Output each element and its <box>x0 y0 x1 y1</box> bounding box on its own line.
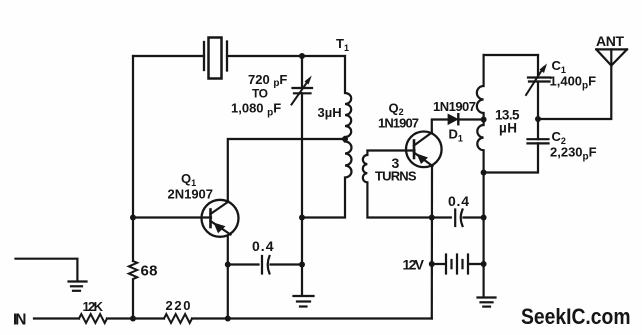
svg-text:68: 68 <box>141 263 158 280</box>
svg-text:TURNS: TURNS <box>375 169 417 184</box>
svg-text:12K: 12K <box>83 299 104 314</box>
node dot emitter / 0.4 wire (right) <box>429 215 435 221</box>
svg-text:1N1907: 1N1907 <box>378 116 419 131</box>
ground right symbol <box>478 298 496 307</box>
svg-text:0.4: 0.4 <box>252 238 274 254</box>
node dot tank coil tap / diode <box>481 117 487 123</box>
wire battery to tank bus <box>469 263 484 265</box>
svg-text:220: 220 <box>166 298 191 313</box>
node dot emitter / battery wire <box>429 261 435 267</box>
transistor Q1 <box>202 200 239 237</box>
tank top wire <box>484 54 538 56</box>
svg-text:Q1: Q1 <box>181 171 196 188</box>
wire diode to tank tap <box>458 118 483 120</box>
svg-text:SeekIC.com: SeekIC.com <box>521 304 631 329</box>
node dot at top of variable capacitor branch <box>299 53 305 59</box>
node dot battery / tank bus <box>481 261 487 267</box>
node dot var-cap branch / 0.4 cap wire <box>299 262 305 268</box>
svg-text:ANT: ANT <box>596 33 624 49</box>
value label 720 pF TO 1,080 pF <box>231 72 287 119</box>
svg-text:1,400pF: 1,400pF <box>550 74 597 92</box>
svg-text:0.4: 0.4 <box>448 193 469 209</box>
wire variable capacitor branch lower <box>301 93 303 295</box>
wire emitter node to capacitor 0.4 <box>228 263 259 265</box>
node dot emitter / 0.4 wire <box>225 262 231 268</box>
wire left vertical lower segment <box>132 280 134 319</box>
inductor 13.5uH tank coil with tap <box>477 55 484 264</box>
wire variable capacitor branch upper <box>301 56 303 88</box>
ground left symbol <box>69 282 87 291</box>
wire emitter node to capacitor 0.4 right <box>432 216 451 218</box>
node dot C1/C2/antenna junction <box>535 116 541 122</box>
transformer T1 primary winding <box>302 56 352 218</box>
wire tank bus down to ground <box>483 264 485 297</box>
svg-text:2,230pF: 2,230pF <box>550 145 597 163</box>
wire Q1 emitter down <box>227 237 229 319</box>
antenna symbol <box>596 49 627 65</box>
tank right vertical lower + bottom wire <box>484 143 538 172</box>
diode D1 <box>449 114 459 124</box>
bottom wire left segment <box>34 317 79 319</box>
variable capacitor C1 <box>526 64 551 96</box>
bottom wire middle segment <box>107 317 164 319</box>
node dot left bus / bottom wire <box>130 316 136 322</box>
wire capacitor 0.4 right to tank bus <box>464 216 484 218</box>
transistor Q2 <box>406 132 442 168</box>
bottom wire right segment <box>192 317 432 319</box>
capacitor 0.4 (right) <box>455 210 462 227</box>
node dot T1 primary tap <box>342 136 348 142</box>
svg-text:D1: D1 <box>449 127 463 144</box>
battery 12V <box>446 255 468 274</box>
wire Q1 collector to T1 tap <box>228 139 345 200</box>
node dot var-cap branch / T1 bottom <box>299 215 305 221</box>
svg-text:TO: TO <box>252 87 268 101</box>
wire capacitor 0.4 to center branch <box>271 263 303 265</box>
transformer T1 secondary (3 turns) <box>363 151 432 218</box>
node dot tank bus / 0.4 wire <box>481 215 487 221</box>
wire Q2 emitter down <box>431 167 433 319</box>
wire emitter node to battery <box>432 263 445 265</box>
resistor 12K <box>79 314 107 323</box>
svg-text:IN: IN <box>13 312 27 329</box>
capacitor 0.4 (left) <box>262 256 270 274</box>
resistor 220 <box>164 314 192 323</box>
svg-text:T1: T1 <box>336 36 349 53</box>
wire Q1 base <box>133 216 211 218</box>
wire antenna feed <box>538 66 611 120</box>
svg-text:µH: µH <box>499 121 517 136</box>
wire left vertical bus x=133 <box>132 56 134 261</box>
variable capacitor 720pF-1080pF <box>292 76 313 105</box>
tank right vertical upper <box>537 55 539 78</box>
wire Q2 collector up <box>432 120 449 132</box>
svg-text:1,080 pF: 1,080 pF <box>231 101 281 119</box>
resistor 68 <box>129 261 137 279</box>
node dot emitter / bottom wire <box>225 316 231 322</box>
tank right vertical middle <box>537 82 539 140</box>
ground center (bottom of variable cap branch) <box>294 296 314 307</box>
wire top horizontal left of crystal <box>133 55 204 57</box>
node dot tank bottom corner <box>481 170 487 176</box>
node dot base/left bus <box>130 215 136 221</box>
capacitor C2 <box>528 139 549 143</box>
svg-text:1N1907: 1N1907 <box>433 99 476 114</box>
crystal X1 <box>204 38 227 79</box>
svg-text:3µH: 3µH <box>318 105 342 120</box>
ground stub left <box>16 259 78 281</box>
svg-text:C1: C1 <box>552 58 566 75</box>
svg-text:12V: 12V <box>403 257 425 273</box>
svg-text:2N1907: 2N1907 <box>168 187 214 202</box>
svg-text:C2: C2 <box>552 129 566 146</box>
wire top horizontal right of crystal <box>227 55 345 57</box>
